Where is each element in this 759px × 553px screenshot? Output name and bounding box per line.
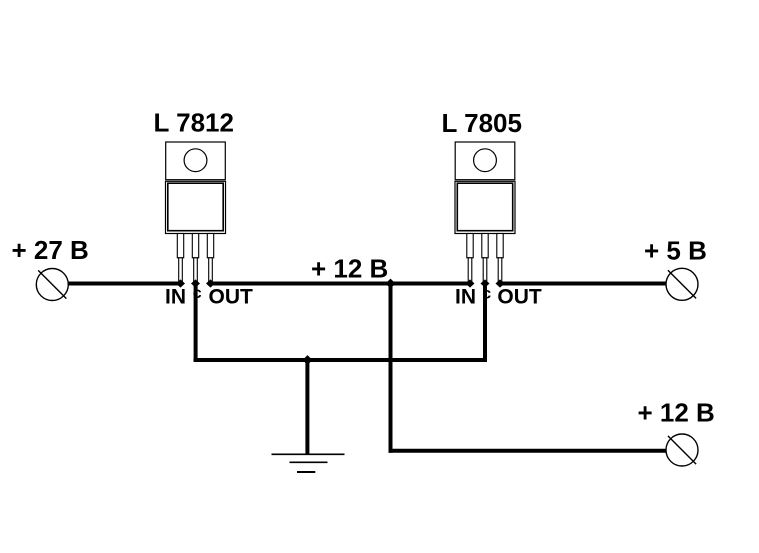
svg-text:c: c	[482, 285, 491, 302]
node: junction of +12 V drop on main rail	[386, 279, 396, 289]
terminal X1 (+27 V input)	[36, 269, 68, 301]
regulator U1 L7812 (TO-220 package)	[166, 142, 226, 288]
svg-text:OUT: OUT	[497, 286, 542, 309]
svg-text:+ 12 В: + 12 В	[311, 254, 388, 284]
wire: left terminal to IN pin of U1	[68, 282, 181, 286]
wire: bottom +12 V wire to bottom-right terminal	[389, 449, 667, 453]
node: junction of ground stem on ground bus	[303, 355, 313, 365]
svg-text:IN: IN	[165, 286, 186, 309]
U1 mounting hole	[184, 149, 207, 172]
U2 leg 1 (IN)	[467, 234, 473, 258]
U1 leg 2 (GND)	[192, 234, 198, 258]
U2 body outer	[455, 181, 515, 233]
wire: U1 GND pin drop to ground bus	[194, 284, 198, 363]
svg-text:+ 27 В: + 27 В	[12, 235, 89, 265]
U2 leg 3 (OUT)	[497, 234, 503, 258]
U1 pin 1 wire	[179, 258, 183, 283]
ground bar 3	[297, 471, 315, 473]
U1 body inner	[168, 183, 223, 231]
svg-text:IN: IN	[455, 286, 476, 309]
U1 leg 1 (IN)	[177, 234, 183, 258]
svg-text:+ 12 В: + 12 В	[638, 398, 715, 428]
U2 pin 2 node	[481, 279, 490, 287]
U1 pin 2 wire	[194, 258, 198, 283]
regulator U2 L7805 (TO-220 package)	[455, 142, 515, 288]
svg-text:+ 5 В: + 5 В	[644, 236, 707, 266]
U2 pin 3 node	[496, 279, 505, 287]
svg-text:OUT: OUT	[209, 286, 254, 309]
U2 leg 2 (GND)	[482, 234, 488, 258]
U1 pin 1 node	[176, 279, 185, 287]
U2 pin 1 wire	[468, 258, 472, 283]
wire: +12 V drop from main rail junction down	[389, 284, 393, 453]
wire: OUT pin of U2 to right terminal	[500, 282, 667, 286]
U1 tab	[166, 142, 226, 180]
U2 tab	[455, 142, 515, 180]
U1 leg 3 (OUT)	[207, 234, 213, 258]
svg-text:L 7805: L 7805	[442, 108, 522, 138]
wire: ground bus horizontal	[194, 358, 487, 362]
U1 pin 3 wire	[209, 258, 213, 283]
U2 pin 1 node	[466, 279, 475, 287]
U1 pin 2 node	[191, 279, 200, 287]
terminal X3 (+12 V output)	[666, 434, 698, 466]
U2 mounting hole	[474, 149, 497, 172]
wire: U2 GND pin drop to ground bus	[483, 284, 487, 363]
ground bar 2	[290, 461, 328, 463]
svg-text:c: c	[193, 285, 202, 302]
svg-text:L 7812: L 7812	[154, 108, 234, 138]
U1 body outer	[166, 181, 226, 233]
wire: OUT pin of U1 to IN pin of U2 (+12 V rail)	[210, 282, 471, 286]
U2 pin 2 wire	[483, 258, 487, 283]
wire: ground stem from bus junction down to ground symbol	[305, 358, 309, 455]
U2 body inner	[457, 183, 512, 231]
U1 pin 3 node	[206, 279, 215, 287]
ground symbol	[272, 454, 345, 472]
ground bar 1	[272, 453, 345, 455]
terminal X2 (+5 V output)	[666, 268, 698, 300]
U2 pin 3 wire	[498, 258, 502, 283]
